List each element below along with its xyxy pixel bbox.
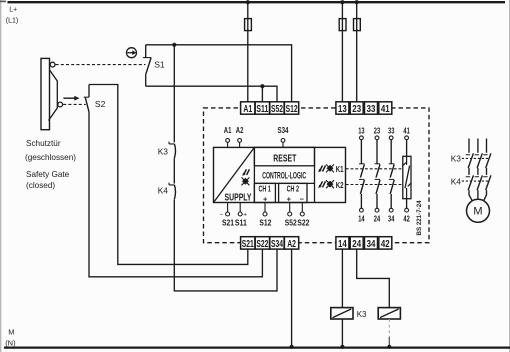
terminal box 34 [365, 237, 378, 250]
svg-text:SUPPLY: SUPPLY [225, 192, 252, 203]
pin S22 [297, 203, 309, 228]
svg-text:Safety Gate: Safety Gate [26, 170, 70, 179]
svg-text:34: 34 [367, 238, 376, 250]
svg-text:K3: K3 [357, 310, 367, 319]
svg-text:A1: A1 [224, 125, 232, 135]
svg-text:K3: K3 [158, 146, 169, 156]
svg-text:24: 24 [374, 214, 381, 224]
supply LED arrows [242, 169, 250, 185]
contact K3 (NC feedback) [169, 142, 176, 159]
svg-text:A2: A2 [287, 238, 296, 250]
junction dot node S1/K3 [172, 43, 176, 47]
svg-text:CH 1: CH 1 [259, 184, 272, 193]
terminal box S52 [270, 102, 284, 115]
pin S12 [259, 203, 271, 228]
wire rail to terminal 13 [341, 2, 343, 102]
svg-text:S22: S22 [256, 238, 268, 250]
fuse F1 [245, 19, 252, 31]
wire terminal 24 to coil K4 [357, 249, 390, 308]
terminal box S34 [270, 237, 284, 250]
svg-text:42: 42 [381, 238, 390, 250]
svg-text:A1: A1 [243, 103, 252, 115]
svg-text:M: M [8, 328, 14, 337]
terminal box S12 [284, 102, 298, 115]
pin A2 [236, 125, 244, 147]
terminal box 14 [336, 237, 349, 250]
dashed K4 linkage [462, 180, 489, 182]
svg-text:S11: S11 [256, 103, 268, 115]
supply rail L+ (L1) [0, 1, 505, 3]
terminal box A1 [241, 102, 255, 115]
wire terminal 14 to coil K3 [341, 249, 343, 308]
junction dot [387, 345, 391, 349]
svg-text:41: 41 [403, 126, 410, 136]
svg-text:S1: S1 [154, 60, 165, 70]
safety gate door symbol [41, 58, 63, 129]
dashed K3 linkage [462, 157, 489, 159]
contact 23-24 [374, 126, 381, 224]
svg-text:S34: S34 [278, 125, 289, 135]
wires contacts to motor [469, 190, 487, 202]
neutral rail M (N) [4, 346, 510, 348]
terminal box A2 [284, 237, 298, 250]
junction dot [246, 0, 250, 4]
motor M1 [467, 199, 490, 222]
svg-text:K1: K1 [336, 165, 344, 174]
contact 13-14 [358, 126, 365, 224]
wire A2 to neutral rail [291, 249, 293, 348]
svg-text:S12: S12 [286, 103, 298, 115]
wire S2 bottom to S22 [89, 112, 262, 277]
scan border left [0, 0, 2, 352]
junction dot [260, 84, 264, 88]
relay K2 indicator [318, 180, 344, 190]
switch S2 (NO, door operated) [84, 85, 89, 112]
wire coil K3 to neutral rail [341, 319, 343, 348]
terminal box 24 [350, 237, 363, 250]
svg-text:41: 41 [381, 103, 390, 115]
svg-text:23: 23 [352, 103, 361, 115]
svg-text:23: 23 [374, 126, 381, 136]
svg-text:34: 34 [388, 214, 395, 224]
block CH 2 [279, 183, 307, 202]
block CH 1 [254, 183, 275, 202]
wire rail to terminal 23 [356, 2, 358, 102]
svg-text:14: 14 [338, 238, 347, 250]
terminal box S21 [241, 237, 255, 250]
terminal box 42 [379, 237, 392, 250]
svg-text:S52: S52 [285, 217, 297, 227]
svg-text:13: 13 [358, 126, 365, 136]
wire S1 top to S12 [146, 45, 292, 102]
svg-text:24: 24 [352, 238, 361, 250]
contact 41-42 (NC with forced guiding frame) [402, 126, 411, 224]
svg-text:S12: S12 [259, 217, 271, 227]
svg-text:14: 14 [358, 214, 365, 224]
wire stub to S11 [261, 86, 263, 102]
scan border right [508, 0, 510, 352]
svg-text:S11: S11 [235, 217, 247, 227]
svg-text:33: 33 [388, 126, 395, 136]
svg-text:13: 13 [338, 103, 347, 115]
supply block diagonal [214, 147, 255, 202]
svg-text:RESET: RESET [273, 154, 296, 165]
svg-text:(closed): (closed) [26, 181, 55, 190]
svg-text:+: + [263, 195, 268, 204]
svg-text:−: − [300, 194, 305, 203]
relay coil K4 [378, 308, 400, 319]
pin S52 [285, 203, 297, 228]
junction dot [355, 0, 359, 4]
svg-text:K2: K2 [336, 181, 344, 190]
wire coil K4 to neutral rail (faded) [388, 319, 390, 337]
pin A1 [224, 125, 232, 147]
wire K3 to K4 [173, 158, 175, 183]
svg-text:CH 2: CH 2 [287, 184, 300, 193]
svg-text:K3: K3 [451, 153, 462, 163]
wire node to K3 contact [173, 45, 175, 143]
wire rail to A1 [247, 2, 249, 102]
svg-text:CONTROL-LOGIC: CONTROL-LOGIC [262, 170, 306, 180]
junction dot [340, 0, 344, 4]
pin S21 (minus) [220, 203, 235, 228]
K compartment divider [314, 147, 316, 202]
actuation dashed link door to S2 [63, 103, 86, 105]
wire K4 to S34 [174, 199, 277, 291]
pin S11 (plus) [235, 203, 247, 228]
svg-text:BS 221-7-24: BS 221-7-24 [416, 200, 423, 236]
svg-text:(L1): (L1) [6, 17, 18, 24]
wire S2 top to S21 [89, 85, 248, 265]
svg-text:S2: S2 [95, 99, 106, 109]
fuse F2 [339, 19, 346, 31]
fuse F3 [354, 19, 361, 31]
svg-text:+: + [287, 195, 292, 204]
junction dot [290, 345, 294, 349]
contact K3 (motor, 3-pole) [466, 153, 491, 175]
svg-text:(N): (N) [5, 338, 16, 347]
svg-text:S21: S21 [242, 238, 254, 250]
svg-text:S22: S22 [297, 217, 309, 227]
svg-text:S21: S21 [222, 217, 234, 227]
supply block right divider [253, 147, 255, 202]
terminal box 13 [336, 102, 349, 115]
relay K1 indicator [318, 164, 344, 174]
actuation arrow for S2 [63, 96, 79, 101]
svg-text:S34: S34 [271, 238, 283, 250]
svg-text:42: 42 [403, 214, 410, 224]
op module U1 inner box [214, 147, 346, 202]
svg-text:S52: S52 [271, 103, 283, 115]
control-logic strip line [254, 182, 314, 184]
pin S34 [278, 125, 289, 147]
svg-text:Schutztür: Schutztür [26, 139, 61, 148]
relay coil K3 [331, 308, 353, 319]
actuation dashed link door to S1 [56, 64, 146, 66]
terminal box 23 [350, 102, 363, 115]
svg-text:K4: K4 [451, 176, 462, 186]
svg-text:(geschlossen): (geschlossen) [25, 153, 76, 162]
dashed K1 linkage [346, 168, 403, 170]
actuation direction symbol (circled arrow) [127, 48, 137, 58]
terminal box S22 [255, 237, 269, 250]
terminal box 41 [379, 102, 392, 115]
terminal box S11 [255, 102, 269, 115]
svg-text:K4: K4 [158, 186, 169, 196]
wire S1 bottom to S11/S52 [146, 86, 277, 102]
contact K4 (NC feedback) [169, 183, 176, 200]
RESET block [254, 147, 314, 165]
svg-text:M: M [473, 205, 482, 217]
contact K4 (motor, 3-pole) [466, 175, 491, 190]
switch S1 (NC, door operated) [143, 45, 152, 86]
svg-text:A2: A2 [236, 125, 244, 135]
svg-text:L+: L+ [9, 7, 17, 14]
svg-text:33: 33 [367, 103, 376, 115]
junction dot [340, 345, 344, 349]
safety relay module dashed enclosure [204, 108, 430, 243]
motor branch phase lines [469, 139, 487, 153]
dashed K2 linkage [346, 184, 403, 186]
terminal box 33 [365, 102, 378, 115]
contact 33-34 [388, 126, 395, 224]
